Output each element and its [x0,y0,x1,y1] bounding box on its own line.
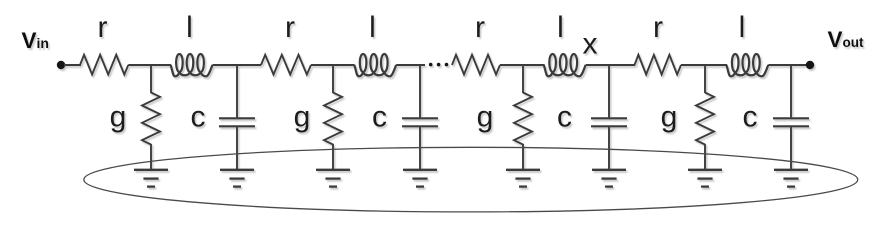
svg-text:l: l [739,11,746,44]
wire r to l across node g2 (section 2) [311,64,355,66]
wire c1 to ground [236,127,238,170]
ground of g1 [134,170,168,187]
wire g1 to ground [150,144,152,170]
wire r to l across node g4 (section 4) [681,64,727,66]
resistor r (section 2) [261,55,311,75]
capacitor c1 top plate [219,117,255,119]
ellipsis dots (continued line sections) [429,63,448,67]
wire g2 to ground [332,144,334,170]
resistor g2 (shunt conductance) [324,93,342,145]
wire c4 to ground [790,127,792,170]
wire node to conductance g1 [150,64,152,93]
inductor l (section 4) [726,54,768,76]
wire l to Vout across node c4 (section 4) [768,64,808,66]
wire node to capacitor c3 [608,64,610,117]
wire node to capacitor c1 [236,64,238,117]
resistor g1 (shunt conductance) [142,93,160,145]
inductor l (section 3) [544,54,586,76]
svg-text:r: r [285,11,295,44]
svg-text:g: g [661,101,678,134]
input terminal dot [57,61,65,69]
wire node to capacitor c4 [790,64,792,117]
svg-text:l: l [369,11,376,44]
svg-text:c: c [743,101,758,134]
capacitor c3 bottom plate [591,125,627,127]
svg-text:l: l [557,11,564,44]
ground of c2 [403,170,437,187]
capacitor c2 top plate [402,117,438,119]
capacitor c4 bottom plate [773,125,809,127]
svg-text:Vin: Vin [22,28,49,53]
svg-text:c: c [372,101,387,134]
capacitor c4 top plate [773,117,809,119]
wire c2 to ground [419,127,421,170]
svg-text:x: x [583,28,598,61]
svg-text:c: c [557,101,572,134]
wire r to l across node g3 (section 3) [500,64,545,66]
wire r to l across node g1 (section 1) [128,64,171,66]
wire c3 to ground [608,127,610,170]
svg-text:r: r [98,11,108,44]
capacitor c3 top plate [591,117,627,119]
common ground ellipse [84,147,858,212]
svg-text:g: g [110,101,127,134]
wire node to conductance g3 [522,64,524,93]
wire l to r across node c1 (sections 1-2) [213,64,262,66]
svg-text:r: r [475,11,485,44]
ground of c1 [220,170,254,187]
resistor r (section 3) [452,55,500,75]
svg-text:Vout: Vout [828,27,865,52]
svg-text:c: c [191,101,206,134]
wire node to capacitor c2 [419,64,421,117]
wire node to conductance g2 [332,64,334,93]
wire l to node c2 stub (section 2) [396,64,425,66]
inductor l (section 2) [354,54,396,76]
ground of g2 [316,170,350,187]
wire g4 to ground [704,144,706,170]
ground of g3 [506,170,540,187]
wire g3 to ground [522,144,524,170]
wire l to r across node x / c3 (sections 3-4) [586,64,635,66]
output terminal dot [806,61,814,69]
capacitor c2 bottom plate [402,125,438,127]
ground of c4 [774,170,808,187]
ground of g4 [688,170,722,187]
resistor g4 (shunt conductance) [696,93,714,145]
svg-text:r: r [653,11,663,44]
resistor r (section 1) [80,55,128,75]
wire node to conductance g4 [704,64,706,93]
capacitor c1 bottom plate [219,125,255,127]
resistor g3 (shunt conductance) [514,93,532,145]
ground of c3 [592,170,626,187]
svg-text:l: l [186,11,193,44]
resistor r (section 4) [635,55,682,75]
svg-text:g: g [294,101,311,134]
inductor l (section 1) [171,54,213,76]
svg-text:g: g [477,101,494,134]
wire Vin to r (section 1) [64,64,81,66]
